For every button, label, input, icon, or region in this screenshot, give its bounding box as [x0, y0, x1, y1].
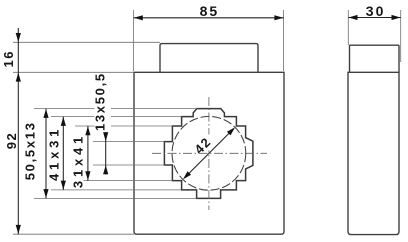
svg-text:13x50,5: 13x50,5 — [93, 72, 108, 131]
side view body — [348, 72, 399, 234]
dimension 16 arrow top (outside above) — [16, 33, 21, 42]
extension line body bottom y234.2 — [13, 233, 134, 235]
dimension 30 extension line right — [400, 10, 402, 62]
leader line y165.0 — [93, 164, 164, 166]
leader line y108.6 — [34, 108, 197, 110]
dimension 30 arrow right — [392, 15, 401, 20]
svg-text:50,5x13: 50,5x13 — [22, 121, 37, 180]
horizontal centerline — [152, 152, 267, 154]
dimension 30 extension line left — [347, 10, 349, 45]
front view raised terminal block — [160, 44, 258, 73]
leader line y141.6 — [93, 141, 164, 143]
svg-text:41x31: 41x31 — [46, 126, 61, 181]
dimension line 13x50,5 (x105.7) arrows outside — [105, 132, 107, 175]
dimension line 31x41 (x87.9) — [87, 126, 89, 181]
dimension 85 extension line left — [133, 10, 135, 71]
dimension 30 arrow left — [349, 15, 358, 20]
halo behind label 42 — [206, 135, 211, 151]
dimension 92 arrow down — [16, 225, 21, 234]
diagonal dimension line 42 — [184, 129, 234, 179]
extension line body top y72.3 — [13, 71, 134, 73]
vertical centerline — [208, 97, 210, 210]
dimension line 41x31 (x63.3) — [62, 117, 64, 190]
dimension line 50,5x13 (x46) — [45, 109, 47, 199]
leader line y116.6 — [51, 116, 182, 118]
dimension 16-92 vertical line — [17, 28, 19, 234]
arrowhead upper right of 42 — [227, 127, 235, 135]
dimension 85 arrow right — [274, 15, 283, 20]
halo behind label 13x50,5 — [95, 74, 112, 130]
leader line y198.4 — [34, 197, 197, 199]
window stepped contour — [164, 109, 253, 199]
dimension 85 extension line right — [283, 10, 285, 71]
dimension 85 arrow left — [134, 15, 143, 20]
front view body — [134, 72, 284, 234]
leader line y126.0 — [75, 125, 172, 127]
dimension 92 arrow up — [16, 73, 21, 82]
side view raised terminal block — [350, 45, 400, 72]
svg-text:92: 92 — [4, 132, 19, 149]
leader line y180.6 — [75, 180, 172, 182]
leader line y189.9 — [51, 189, 182, 191]
svg-text:16: 16 — [1, 50, 16, 67]
extension line top of raised block y42.3 — [13, 41, 160, 43]
arrowhead lower left of 42 — [183, 171, 191, 179]
dashed circle d42 — [172, 116, 246, 190]
svg-text:31x41: 31x41 — [71, 133, 86, 188]
svg-text:30: 30 — [366, 3, 386, 19]
dimension 30 line — [348, 17, 400, 19]
halo behind label 31x41 — [73, 136, 84, 188]
dimension 85 line — [134, 17, 284, 19]
svg-text:85: 85 — [200, 3, 220, 19]
